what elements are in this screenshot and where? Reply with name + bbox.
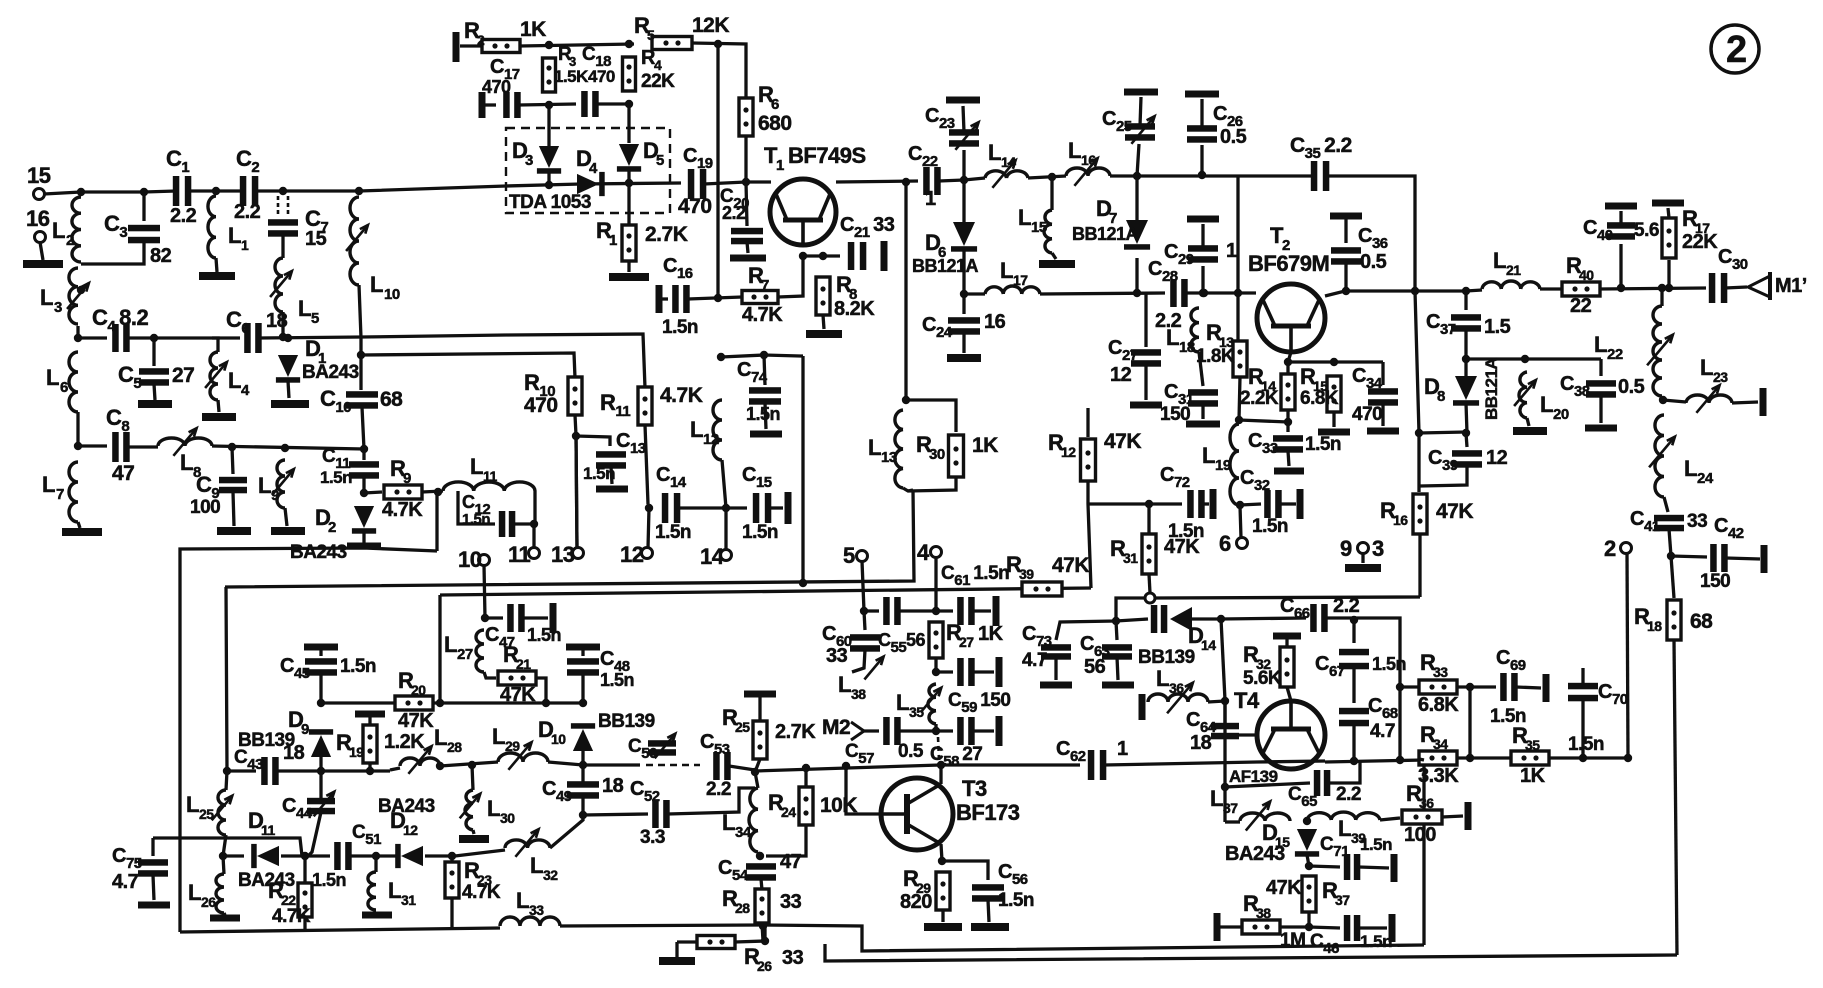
capacitor C61 xyxy=(957,597,975,625)
wire C15 right xyxy=(769,506,783,509)
resistor R11 xyxy=(638,387,652,425)
value R18 68 xyxy=(1690,610,1713,633)
svg-text:7: 7 xyxy=(56,486,64,503)
wire C11 to R9wire xyxy=(362,477,365,493)
svg-text:470: 470 xyxy=(678,195,712,218)
label D9 sub xyxy=(301,721,309,738)
wire C40 lead xyxy=(1619,244,1622,288)
terminal 12 xyxy=(642,548,653,559)
label C52 xyxy=(630,778,660,805)
diode D15 xyxy=(1295,829,1319,857)
diode D2 xyxy=(352,506,376,534)
svg-text:15: 15 xyxy=(27,163,51,188)
label C11 xyxy=(322,446,350,472)
label R16 xyxy=(1380,498,1396,523)
wire 611 row xyxy=(864,609,879,612)
wire W3 right1 xyxy=(755,765,940,771)
node T3 base drop xyxy=(842,762,850,770)
svg-text:1K: 1K xyxy=(520,18,546,41)
terminal 10 xyxy=(479,555,490,566)
label L32 xyxy=(530,853,543,878)
inductor L33 xyxy=(500,917,560,926)
wire x440 xyxy=(438,595,441,703)
svg-text:1.2K: 1.2K xyxy=(384,731,425,753)
svg-text:0.5: 0.5 xyxy=(1220,126,1247,148)
label L37 xyxy=(1210,786,1223,811)
label L8 sub xyxy=(193,464,201,481)
svg-text:5.6: 5.6 xyxy=(1634,220,1659,241)
label 14 xyxy=(700,544,725,569)
svg-text:1K: 1K xyxy=(1520,765,1546,787)
value C29 1 xyxy=(1226,240,1237,262)
svg-text:2: 2 xyxy=(328,519,336,536)
arrow C50 variable xyxy=(655,734,676,759)
wire C34 bot xyxy=(1381,404,1384,426)
node C40 bottom xyxy=(1617,284,1625,292)
value C17 470 xyxy=(482,77,511,97)
node 1116-621 xyxy=(1112,617,1120,625)
wire R24 bot xyxy=(766,825,806,856)
svg-text:2: 2 xyxy=(1604,536,1616,561)
label R32 sub xyxy=(1256,656,1271,672)
label C2 xyxy=(236,146,259,176)
node R31 junction circle xyxy=(1145,593,1155,603)
wire L24-C41 xyxy=(1664,497,1668,512)
label R14 xyxy=(1248,364,1264,389)
label L21 xyxy=(1493,248,1506,273)
resistor R20 xyxy=(395,696,433,710)
wire C49 bot lead xyxy=(581,797,584,815)
node C60 top xyxy=(860,607,868,615)
terminal bar L36 left xyxy=(1139,694,1146,720)
value C46 1.5n xyxy=(1360,932,1392,951)
resistor R25 xyxy=(753,721,767,759)
wire main C19-T1 xyxy=(704,182,771,184)
label L15 xyxy=(1018,205,1031,230)
label L29 xyxy=(492,724,505,749)
diode D8 xyxy=(1453,376,1479,406)
label D1 xyxy=(305,336,320,361)
svg-text:L: L xyxy=(1700,355,1713,380)
node C57 right xyxy=(932,727,940,735)
wire C74 bot lead xyxy=(765,403,766,429)
svg-text:L: L xyxy=(1540,392,1553,417)
diode D11 xyxy=(251,844,279,868)
node rail1 x803 xyxy=(799,579,807,587)
capacitor C47 xyxy=(507,604,525,632)
wire main to C35corner xyxy=(1137,174,1238,177)
inductor L11 xyxy=(443,482,535,491)
value C9 100 xyxy=(190,497,220,518)
svg-text:1: 1 xyxy=(241,237,249,253)
label L28 xyxy=(434,725,447,750)
label C21 xyxy=(840,214,895,241)
node R15 top xyxy=(1330,358,1338,366)
label D8 sub xyxy=(1437,388,1445,405)
svg-text:2.2: 2.2 xyxy=(1333,595,1360,617)
svg-text:22: 22 xyxy=(1570,295,1592,317)
svg-text:T3: T3 xyxy=(962,776,987,801)
value C8 47 xyxy=(112,462,134,485)
svg-text:BF173: BF173 xyxy=(956,800,1020,825)
wire D1 bar to tbar xyxy=(288,381,289,398)
svg-text:18: 18 xyxy=(1179,339,1195,356)
label L5 sub xyxy=(311,310,319,327)
diode D10 xyxy=(571,723,595,751)
wire R13 bottom xyxy=(1239,377,1240,420)
label C45 xyxy=(280,655,310,682)
terminal bar R2 left xyxy=(453,32,460,62)
value C70 1.5n xyxy=(1568,734,1604,755)
value R36 100 xyxy=(1404,824,1436,846)
svg-text:19: 19 xyxy=(1215,457,1231,474)
wire main top rail xyxy=(81,191,176,192)
svg-text:22K: 22K xyxy=(641,71,675,92)
label L25 xyxy=(186,792,199,817)
resistor R2 xyxy=(482,40,520,53)
label C20 xyxy=(720,186,749,212)
svg-text:10: 10 xyxy=(384,286,400,303)
terminal 5 xyxy=(857,551,868,562)
node T3 emitter xyxy=(938,857,946,865)
wire R7 right up xyxy=(778,257,803,297)
wire C12 right xyxy=(514,522,534,525)
label R4 xyxy=(641,47,656,69)
label C43 xyxy=(234,747,263,773)
capacitor C64 xyxy=(1211,723,1239,740)
value C15 1.5n xyxy=(742,522,778,543)
label R6 xyxy=(758,82,774,107)
label D7 BB121A xyxy=(1072,224,1139,244)
capacitor C51 xyxy=(334,842,352,870)
capacitor C32 xyxy=(1264,490,1282,518)
svg-text:14: 14 xyxy=(700,544,725,569)
resistor R35 xyxy=(1511,751,1549,765)
svg-text:4.7K: 4.7K xyxy=(382,499,423,521)
wire R1 to ground xyxy=(627,261,630,272)
wire C38 bot xyxy=(1599,396,1602,423)
wire C46 row xyxy=(1309,927,1340,928)
svg-text:13: 13 xyxy=(881,449,897,466)
wire C25 lead xyxy=(1137,144,1139,176)
svg-text:47: 47 xyxy=(112,462,134,485)
svg-text:L: L xyxy=(1000,258,1013,283)
wire 504 row xyxy=(1088,502,1182,505)
svg-text:2.7K: 2.7K xyxy=(645,223,688,246)
node L34 bottom xyxy=(756,852,764,860)
svg-text:10: 10 xyxy=(551,731,566,747)
wire C46 right xyxy=(1359,926,1387,929)
capacitor C5 xyxy=(139,368,169,386)
wire R25 bot xyxy=(755,759,760,772)
terminal bar C16 left xyxy=(656,285,663,313)
label R12 xyxy=(1048,430,1064,455)
node C34 bottom bar xyxy=(1367,428,1399,435)
diode D5 xyxy=(617,144,641,172)
wire rail C xyxy=(825,944,1677,961)
node C65 left xyxy=(1221,783,1229,791)
svg-text:5: 5 xyxy=(656,152,664,169)
arrow C23 variable xyxy=(955,122,978,150)
label 10 xyxy=(458,547,482,572)
terminal bar C71 right xyxy=(1391,854,1398,882)
ground R1 xyxy=(609,273,649,281)
wire C45 bot lead xyxy=(319,674,322,703)
ground L15 xyxy=(1039,260,1075,268)
label R7 sub xyxy=(761,277,769,294)
wire C41 bot xyxy=(1669,529,1671,556)
wire R5 right xyxy=(692,43,746,97)
svg-text:L: L xyxy=(42,472,55,497)
inductor L4 xyxy=(205,352,227,400)
label D15 BA243 xyxy=(1225,843,1285,865)
wire R22 leads xyxy=(303,856,306,883)
node R33 left xyxy=(1396,683,1404,691)
wire T3 emitter lead xyxy=(941,844,942,861)
wire R33 right xyxy=(1457,685,1496,688)
svg-text:15: 15 xyxy=(1031,219,1047,236)
label R4 sub xyxy=(654,57,662,73)
svg-text:1.5n: 1.5n xyxy=(312,870,346,890)
svg-text:33: 33 xyxy=(1433,664,1448,680)
value R35 1K xyxy=(1520,765,1546,787)
wire T2 emitter xyxy=(1288,352,1291,374)
label D2 sub xyxy=(328,519,336,536)
wire L16-C25 xyxy=(1110,174,1137,177)
label C5 xyxy=(118,362,141,392)
label L33 sub xyxy=(529,902,544,918)
value C28 2.2 xyxy=(1155,310,1182,332)
capacitor C17 xyxy=(503,92,521,118)
svg-text:32: 32 xyxy=(543,867,558,883)
wire D7 top lead xyxy=(1135,176,1138,220)
resistor R21 xyxy=(498,671,536,685)
inductor L34 xyxy=(749,788,758,852)
node C37 bottom xyxy=(1462,355,1470,363)
wire L34-C54 xyxy=(758,852,760,858)
capacitor C41 xyxy=(1654,515,1684,532)
wire main T1-C22 xyxy=(836,181,918,182)
resistor R13 xyxy=(1233,341,1247,377)
label L31 sub xyxy=(401,892,416,908)
node C23 top bar xyxy=(946,97,980,104)
node C3 top xyxy=(140,188,148,196)
wire C25 top xyxy=(1140,97,1141,126)
inductor L2 xyxy=(72,197,81,262)
label R40 xyxy=(1566,253,1582,278)
svg-text:2.2: 2.2 xyxy=(1336,784,1361,805)
svg-text:9: 9 xyxy=(403,470,411,487)
capacitor D14 plates xyxy=(1151,605,1168,633)
node R17 bottom xyxy=(1665,284,1673,292)
loop bottom xyxy=(903,478,956,491)
label C7 xyxy=(305,206,328,236)
node D7 bottom xyxy=(1133,289,1141,297)
svg-text:2.2K: 2.2K xyxy=(1240,388,1279,409)
capacitor C71 xyxy=(1344,854,1361,880)
svg-text:5.6K: 5.6K xyxy=(1243,668,1282,689)
inductor L10 xyxy=(346,197,368,285)
wire C68 bot xyxy=(1352,723,1355,761)
label D10 sub xyxy=(551,731,566,747)
value R9 4.7K xyxy=(382,499,423,521)
node x440 W3 xyxy=(436,762,444,770)
label 2 xyxy=(1604,536,1616,561)
svg-text:26: 26 xyxy=(201,894,216,910)
box TDA1053 dashed xyxy=(506,128,670,213)
diode D9 xyxy=(309,729,333,757)
wire C75 bot lead xyxy=(153,875,154,900)
transistor T1 BF749S xyxy=(770,179,836,245)
svg-text:29: 29 xyxy=(505,738,520,754)
label C26 xyxy=(1213,103,1243,130)
node C14 left xyxy=(645,504,653,512)
svg-text:2.2: 2.2 xyxy=(722,203,746,223)
value C63 56 xyxy=(1084,656,1106,678)
wire C36 top lead xyxy=(1344,219,1347,243)
wire C30 to arrow xyxy=(1725,287,1747,288)
label L23 xyxy=(1700,355,1713,380)
wire R25 top lead xyxy=(758,697,761,722)
svg-text:4: 4 xyxy=(917,540,930,565)
svg-text:38: 38 xyxy=(1256,905,1271,921)
svg-text:16: 16 xyxy=(984,311,1006,333)
capacitor C19 xyxy=(688,169,707,199)
value R22 4.7K xyxy=(272,906,311,927)
value C43 18 xyxy=(283,742,305,764)
capacitor C73 xyxy=(1041,644,1071,660)
resistor R32 xyxy=(1280,647,1294,687)
node C74 top xyxy=(760,351,768,359)
node C10-C8wire xyxy=(360,445,368,453)
svg-text:4.7K: 4.7K xyxy=(742,304,783,326)
svg-text:150: 150 xyxy=(1700,571,1730,592)
label 16 xyxy=(26,206,50,231)
capacitor C31 xyxy=(1188,389,1218,407)
wire W3 L28-L29 xyxy=(440,762,498,766)
inductor L24 xyxy=(1649,415,1675,497)
svg-text:47K: 47K xyxy=(398,710,434,732)
node L1 top xyxy=(212,187,220,195)
label L12 xyxy=(690,417,703,442)
svg-text:35: 35 xyxy=(1525,737,1540,753)
svg-text:1.5n: 1.5n xyxy=(1252,516,1288,537)
svg-text:L: L xyxy=(186,792,199,817)
value R26 33 xyxy=(782,947,804,969)
svg-text:150: 150 xyxy=(1160,404,1190,425)
label L11 sub xyxy=(483,468,498,484)
label C62 xyxy=(1056,738,1086,765)
label L26 xyxy=(188,880,201,905)
capacitor C46 xyxy=(1344,915,1361,941)
label R40 sub xyxy=(1579,267,1594,283)
wire C16 row xyxy=(662,297,668,300)
node T1 emitter xyxy=(799,252,807,260)
inductor L1 xyxy=(208,196,216,258)
node C25 bottom xyxy=(1133,172,1141,180)
node C16-R7 xyxy=(714,294,722,302)
label L20 sub xyxy=(1553,406,1569,423)
node L19 top xyxy=(1235,416,1243,424)
label L35 xyxy=(896,690,909,715)
svg-text:470: 470 xyxy=(524,394,558,417)
wire C56 ground lead xyxy=(988,900,989,922)
value R15 6.8K xyxy=(1300,388,1339,409)
wire x1415 down xyxy=(1415,291,1419,492)
svg-text:1.5n: 1.5n xyxy=(742,522,778,543)
label R27 xyxy=(946,620,962,645)
wire C17-C18 xyxy=(519,104,576,105)
node L20 top xyxy=(1521,355,1529,363)
transistor T2 BF679M xyxy=(1257,284,1325,352)
diode D7 xyxy=(1124,220,1150,250)
node 1419-433 xyxy=(1415,429,1423,437)
wire R29 ground lead xyxy=(941,910,944,922)
capacitor C20 xyxy=(731,228,763,245)
svg-text:17: 17 xyxy=(1013,272,1028,288)
value C75 4.7 xyxy=(112,871,139,893)
svg-text:BA243: BA243 xyxy=(378,796,435,817)
terminal bar C58 right xyxy=(996,716,1003,746)
svg-text:0.5: 0.5 xyxy=(898,741,924,762)
node R23 top xyxy=(448,852,456,860)
resistor R6 xyxy=(739,98,753,136)
label R18 sub xyxy=(1647,618,1662,634)
svg-text:1.8K: 1.8K xyxy=(1196,346,1235,367)
wire R11 bottom xyxy=(645,425,648,504)
value R16 47K xyxy=(1436,500,1473,523)
svg-text:1: 1 xyxy=(1117,738,1128,760)
label D12 xyxy=(390,808,405,833)
ground 9-3 xyxy=(1345,564,1381,572)
svg-text:12: 12 xyxy=(1486,447,1508,469)
wire t2 down xyxy=(1627,553,1628,758)
arrow C25 variable xyxy=(1131,116,1154,144)
label R19 xyxy=(336,730,352,755)
value C72 1.5n xyxy=(1168,521,1204,542)
svg-text:19: 19 xyxy=(349,744,364,760)
svg-text:6: 6 xyxy=(1219,531,1231,556)
svg-text:21: 21 xyxy=(1506,262,1521,278)
resistor R24 xyxy=(799,787,813,825)
wire x718 down xyxy=(716,44,719,299)
value R30 1K xyxy=(972,434,998,457)
label L26 sub xyxy=(201,894,216,910)
wire C13 bottom xyxy=(611,467,612,484)
label D10 BB139 xyxy=(598,711,655,732)
label L2 xyxy=(52,218,65,243)
value C20 2.2 xyxy=(722,203,746,223)
resistor R36 xyxy=(1402,810,1442,824)
svg-text:36: 36 xyxy=(1419,795,1434,811)
label D2 xyxy=(315,505,330,530)
terminal bar R36 right xyxy=(1465,802,1472,830)
label R37 xyxy=(1322,878,1338,903)
terminal bar C61 right xyxy=(993,596,1000,626)
node W4 left xyxy=(219,852,227,860)
inductor L7 xyxy=(69,462,78,522)
value R5 12K xyxy=(692,14,729,37)
wire L23 row xyxy=(1663,400,1686,402)
label L7 xyxy=(42,472,55,497)
label M1' xyxy=(1775,275,1807,297)
label R38 sub xyxy=(1256,905,1271,921)
svg-text:1: 1 xyxy=(776,157,784,174)
wire D8 bot xyxy=(1466,403,1467,433)
label C69 xyxy=(1496,647,1526,674)
ground L7 xyxy=(62,528,102,536)
value R4 22K xyxy=(641,71,675,92)
